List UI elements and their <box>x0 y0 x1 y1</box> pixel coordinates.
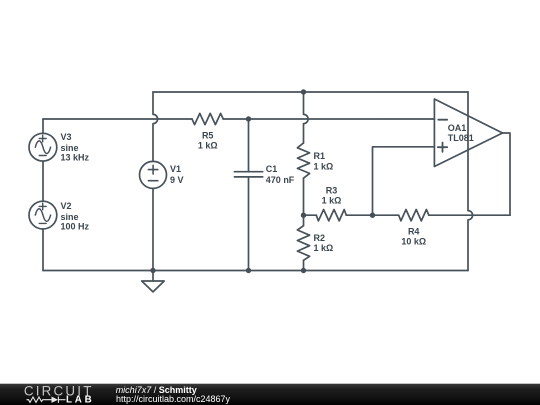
svg-text:13 kHz: 13 kHz <box>61 153 90 163</box>
svg-text:R4: R4 <box>408 226 420 236</box>
svg-text:1 kΩ: 1 kΩ <box>314 243 334 253</box>
resistor R5 <box>192 113 223 124</box>
wire V+ supply drop with hop over feedback wire <box>468 92 473 271</box>
svg-text:V2: V2 <box>61 201 72 211</box>
node input rail / C1 junction <box>246 116 251 121</box>
node top rail / R1 junction <box>301 89 306 94</box>
svg-text:OA1: OA1 <box>448 123 467 133</box>
svg-text:1 kΩ: 1 kΩ <box>314 161 334 171</box>
svg-text:1 kΩ: 1 kΩ <box>322 196 342 206</box>
footer bar <box>0 384 540 405</box>
svg-text:V3: V3 <box>61 132 72 142</box>
wire V2 bottom lead <box>42 229 44 271</box>
wire top supply rail <box>153 91 468 93</box>
svg-text:R1: R1 <box>314 151 326 161</box>
node R3/R4 non-inverting junction <box>370 213 375 218</box>
svg-text:sine: sine <box>61 143 79 153</box>
wire non-inverting input branch <box>373 147 435 215</box>
battery source V1 <box>140 161 167 188</box>
voltage source V2 <box>29 201 57 229</box>
ground <box>142 271 165 292</box>
op-amp OA1 <box>434 99 502 167</box>
wire C1 bottom lead <box>248 177 250 271</box>
resistor R2 <box>297 215 309 270</box>
wire input rail right segment to op-amp inverting input <box>223 118 434 120</box>
svg-text:10 kΩ: 10 kΩ <box>401 237 426 247</box>
wire feedback rail middle segment <box>346 214 398 216</box>
svg-text:V1: V1 <box>170 164 181 174</box>
svg-text:R2: R2 <box>314 233 326 243</box>
svg-text:R5: R5 <box>202 130 214 140</box>
node C1 bottom junction <box>246 268 251 273</box>
node R1/R2/R3 junction <box>301 213 306 218</box>
wire between V3 and V2 <box>42 161 44 201</box>
svg-text:470 nF: 470 nF <box>266 175 295 185</box>
svg-text:sine: sine <box>61 212 79 222</box>
wire R1 bottom lead <box>303 178 305 215</box>
resistor R3 <box>316 210 346 221</box>
svg-text:1 kΩ: 1 kΩ <box>198 141 218 151</box>
capacitor C1 <box>234 172 262 177</box>
resistor R4 <box>399 210 429 221</box>
svg-text:C1: C1 <box>266 164 278 174</box>
resistor R1 <box>297 143 309 178</box>
voltage source V3 <box>29 133 57 161</box>
wire output lead <box>503 133 511 215</box>
svg-text:http://circuitlab.com/c24867y: http://circuitlab.com/c24867y <box>116 394 231 404</box>
wire feedback rail left segment <box>304 214 317 216</box>
svg-text:TL081: TL081 <box>448 133 474 143</box>
CircuitLab logo circuit doodle (resistor + diode) <box>27 397 66 403</box>
wire input rail left segment <box>43 118 192 120</box>
wire R1 top lead with hop over input rail <box>304 92 309 143</box>
svg-text:9 V: 9 V <box>170 175 184 185</box>
wire feedback rail right segment <box>429 214 510 216</box>
svg-text:R3: R3 <box>326 185 338 195</box>
node R2 bottom junction <box>301 268 306 273</box>
wire left source branch top <box>42 119 44 133</box>
wire battery top lead with hop over input wire <box>153 92 158 161</box>
svg-text:LAB: LAB <box>66 395 95 405</box>
node ground junction <box>150 268 155 273</box>
svg-text:100 Hz: 100 Hz <box>61 222 90 232</box>
wire battery bottom lead <box>152 188 154 270</box>
wire bottom ground rail <box>43 270 468 272</box>
wire C1 top lead <box>248 119 250 172</box>
